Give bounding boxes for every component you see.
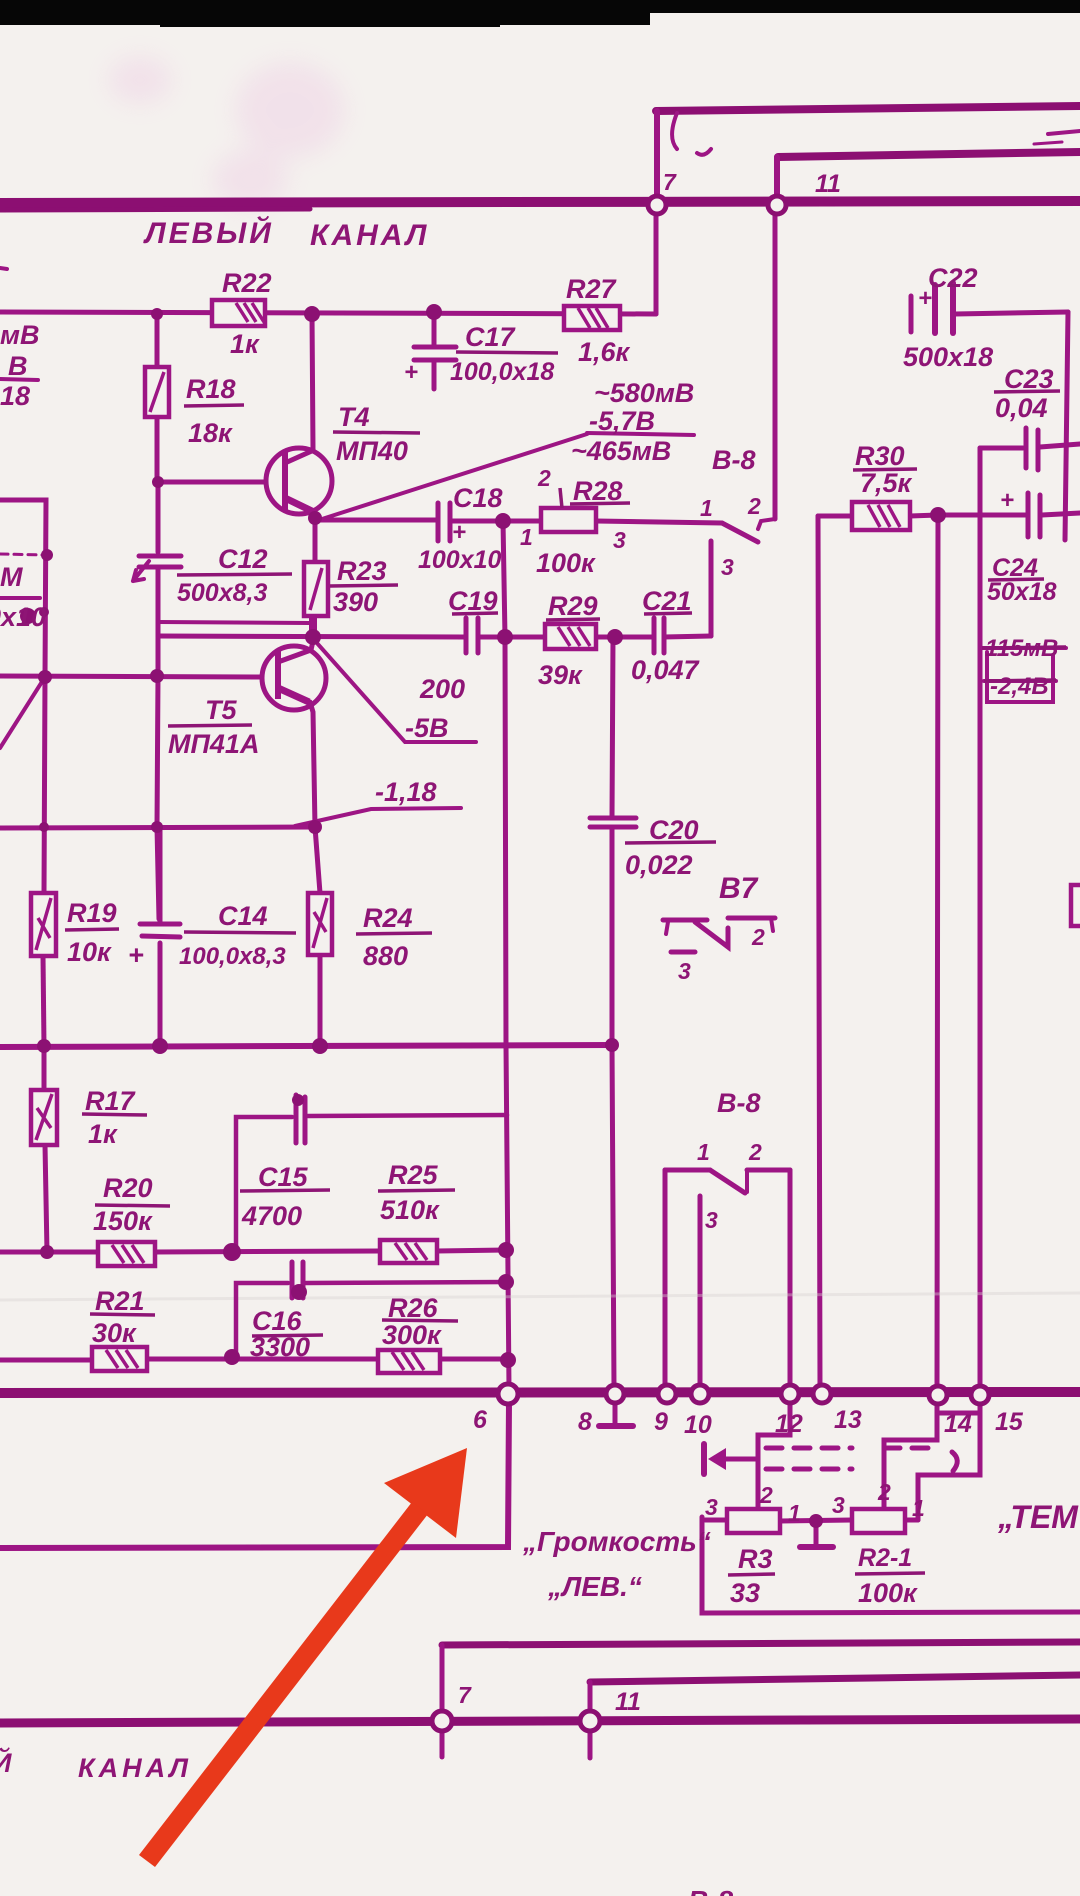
svg-text:100к: 100к — [858, 1578, 918, 1608]
svg-text:1: 1 — [520, 524, 533, 550]
svg-text:КАНАЛ: КАНАЛ — [78, 1753, 192, 1783]
svg-text:10к: 10к — [67, 937, 112, 967]
svg-text:1: 1 — [700, 495, 713, 521]
svg-text:R21: R21 — [95, 1286, 145, 1316]
svg-text:1к: 1к — [88, 1119, 118, 1149]
svg-text:7: 7 — [663, 169, 677, 195]
svg-text:С14: С14 — [218, 901, 268, 931]
svg-text:15: 15 — [995, 1408, 1024, 1436]
svg-text:+: + — [404, 359, 418, 386]
svg-text:R25: R25 — [388, 1160, 439, 1190]
svg-text:С22: С22 — [928, 263, 978, 293]
svg-text:500х18: 500х18 — [903, 342, 993, 372]
svg-text:300к: 300к — [382, 1320, 442, 1350]
svg-text:„ТЕМ: „ТЕМ — [997, 1499, 1079, 1535]
svg-text:39к: 39к — [538, 660, 583, 690]
svg-text:-5В: -5В — [405, 713, 449, 743]
svg-text:0,047: 0,047 — [631, 655, 701, 685]
svg-text:100,0х18: 100,0х18 — [450, 358, 554, 386]
svg-text:2: 2 — [751, 924, 765, 950]
svg-text:3: 3 — [705, 1494, 718, 1520]
svg-text:R17: R17 — [85, 1086, 137, 1116]
svg-text:В7: В7 — [719, 872, 759, 905]
svg-text:+: + — [1000, 487, 1014, 514]
svg-text:100к: 100к — [536, 548, 596, 578]
svg-text:1: 1 — [788, 1500, 801, 1526]
svg-text:С15: С15 — [258, 1162, 309, 1192]
svg-text:13: 13 — [834, 1406, 862, 1434]
svg-text:С17: С17 — [465, 322, 517, 352]
svg-text:В-8: В-8 — [712, 445, 756, 475]
svg-text:R27: R27 — [566, 274, 618, 304]
svg-text:3: 3 — [678, 958, 691, 984]
svg-text:В-8: В-8 — [688, 1885, 734, 1896]
svg-text:3: 3 — [705, 1207, 718, 1233]
svg-text:ЛЕВЫЙ: ЛЕВЫЙ — [143, 215, 274, 250]
svg-text:18: 18 — [0, 381, 30, 411]
svg-text:50х18: 50х18 — [987, 578, 1057, 606]
svg-text:В: В — [8, 351, 28, 381]
svg-text:R20: R20 — [103, 1173, 153, 1203]
svg-text:МП41А: МП41А — [168, 729, 259, 759]
svg-text:-5,7В: -5,7В — [589, 406, 655, 436]
svg-text:2: 2 — [537, 465, 551, 491]
svg-text:МП40: МП40 — [336, 436, 408, 466]
svg-text:390: 390 — [333, 587, 378, 617]
svg-text:Й: Й — [0, 1746, 12, 1778]
svg-text:11: 11 — [815, 170, 841, 198]
svg-text:6: 6 — [473, 1406, 488, 1434]
svg-text:-2,4В: -2,4В — [990, 673, 1049, 700]
svg-text:КАНАЛ: КАНАЛ — [310, 219, 429, 252]
svg-text:0х10: 0х10 — [0, 602, 46, 632]
svg-text:2: 2 — [748, 1139, 762, 1165]
svg-text:R2-1: R2-1 — [858, 1544, 912, 1572]
svg-text:200: 200 — [419, 674, 465, 704]
svg-text:R30: R30 — [855, 441, 905, 471]
svg-text:2: 2 — [759, 1482, 773, 1508]
svg-text:1: 1 — [912, 1495, 925, 1521]
svg-text:~580мВ: ~580мВ — [594, 378, 694, 408]
svg-text:+: + — [918, 285, 932, 312]
svg-text:Т5: Т5 — [205, 695, 237, 725]
svg-text:С20: С20 — [649, 815, 699, 845]
svg-text:R19: R19 — [67, 898, 117, 928]
svg-text:33: 33 — [730, 1578, 760, 1608]
svg-text:500х8,3: 500х8,3 — [177, 579, 267, 607]
svg-text:4700: 4700 — [241, 1201, 302, 1231]
svg-text:30к: 30к — [92, 1318, 137, 1348]
svg-text:R22: R22 — [222, 268, 272, 298]
svg-text:880: 880 — [363, 941, 408, 971]
svg-text:3: 3 — [721, 554, 734, 580]
svg-text:С18: С18 — [453, 483, 503, 513]
svg-text:мВ: мВ — [0, 320, 39, 350]
svg-text:+: + — [128, 940, 144, 970]
svg-text:+: + — [452, 519, 466, 546]
svg-text:R18: R18 — [186, 374, 236, 404]
svg-text:0,022: 0,022 — [625, 850, 693, 880]
svg-text:R23: R23 — [337, 556, 387, 586]
svg-text:-1,18: -1,18 — [375, 777, 437, 807]
svg-text:R29: R29 — [548, 591, 598, 621]
svg-text:11: 11 — [615, 1688, 641, 1716]
svg-text:3: 3 — [832, 1492, 845, 1518]
svg-text:0,04: 0,04 — [995, 393, 1048, 423]
svg-text:~465мВ: ~465мВ — [571, 436, 671, 466]
svg-text:14: 14 — [944, 1410, 972, 1438]
svg-text:510к: 510к — [380, 1195, 440, 1225]
svg-text:10: 10 — [684, 1411, 712, 1439]
svg-text:7,5к: 7,5к — [860, 468, 913, 498]
svg-text:12: 12 — [775, 1410, 803, 1438]
svg-text:9: 9 — [654, 1408, 668, 1436]
svg-text:С12: С12 — [218, 544, 268, 574]
svg-text:2: 2 — [877, 1479, 891, 1505]
svg-text:1: 1 — [697, 1139, 710, 1165]
svg-text:100х10: 100х10 — [418, 546, 502, 574]
svg-text:„ЛЕВ.“: „ЛЕВ.“ — [547, 1571, 642, 1602]
svg-text:2: 2 — [747, 493, 761, 519]
svg-text:100,0х8,3: 100,0х8,3 — [179, 943, 286, 970]
svg-text:7: 7 — [458, 1682, 472, 1708]
svg-text:8: 8 — [578, 1408, 592, 1436]
svg-text:М: М — [0, 562, 23, 592]
svg-text:Т4: Т4 — [338, 402, 370, 432]
svg-text:1к: 1к — [230, 329, 260, 359]
svg-text:18к: 18к — [188, 418, 233, 448]
svg-text:В-8: В-8 — [717, 1088, 761, 1118]
svg-text:150к: 150к — [93, 1206, 153, 1236]
svg-text:3: 3 — [613, 527, 626, 553]
svg-text:1,6к: 1,6к — [578, 337, 631, 367]
svg-text:R24: R24 — [363, 903, 413, 933]
svg-text:„Громкость“: „Громкость“ — [522, 1526, 711, 1557]
svg-text:R3: R3 — [738, 1544, 773, 1574]
